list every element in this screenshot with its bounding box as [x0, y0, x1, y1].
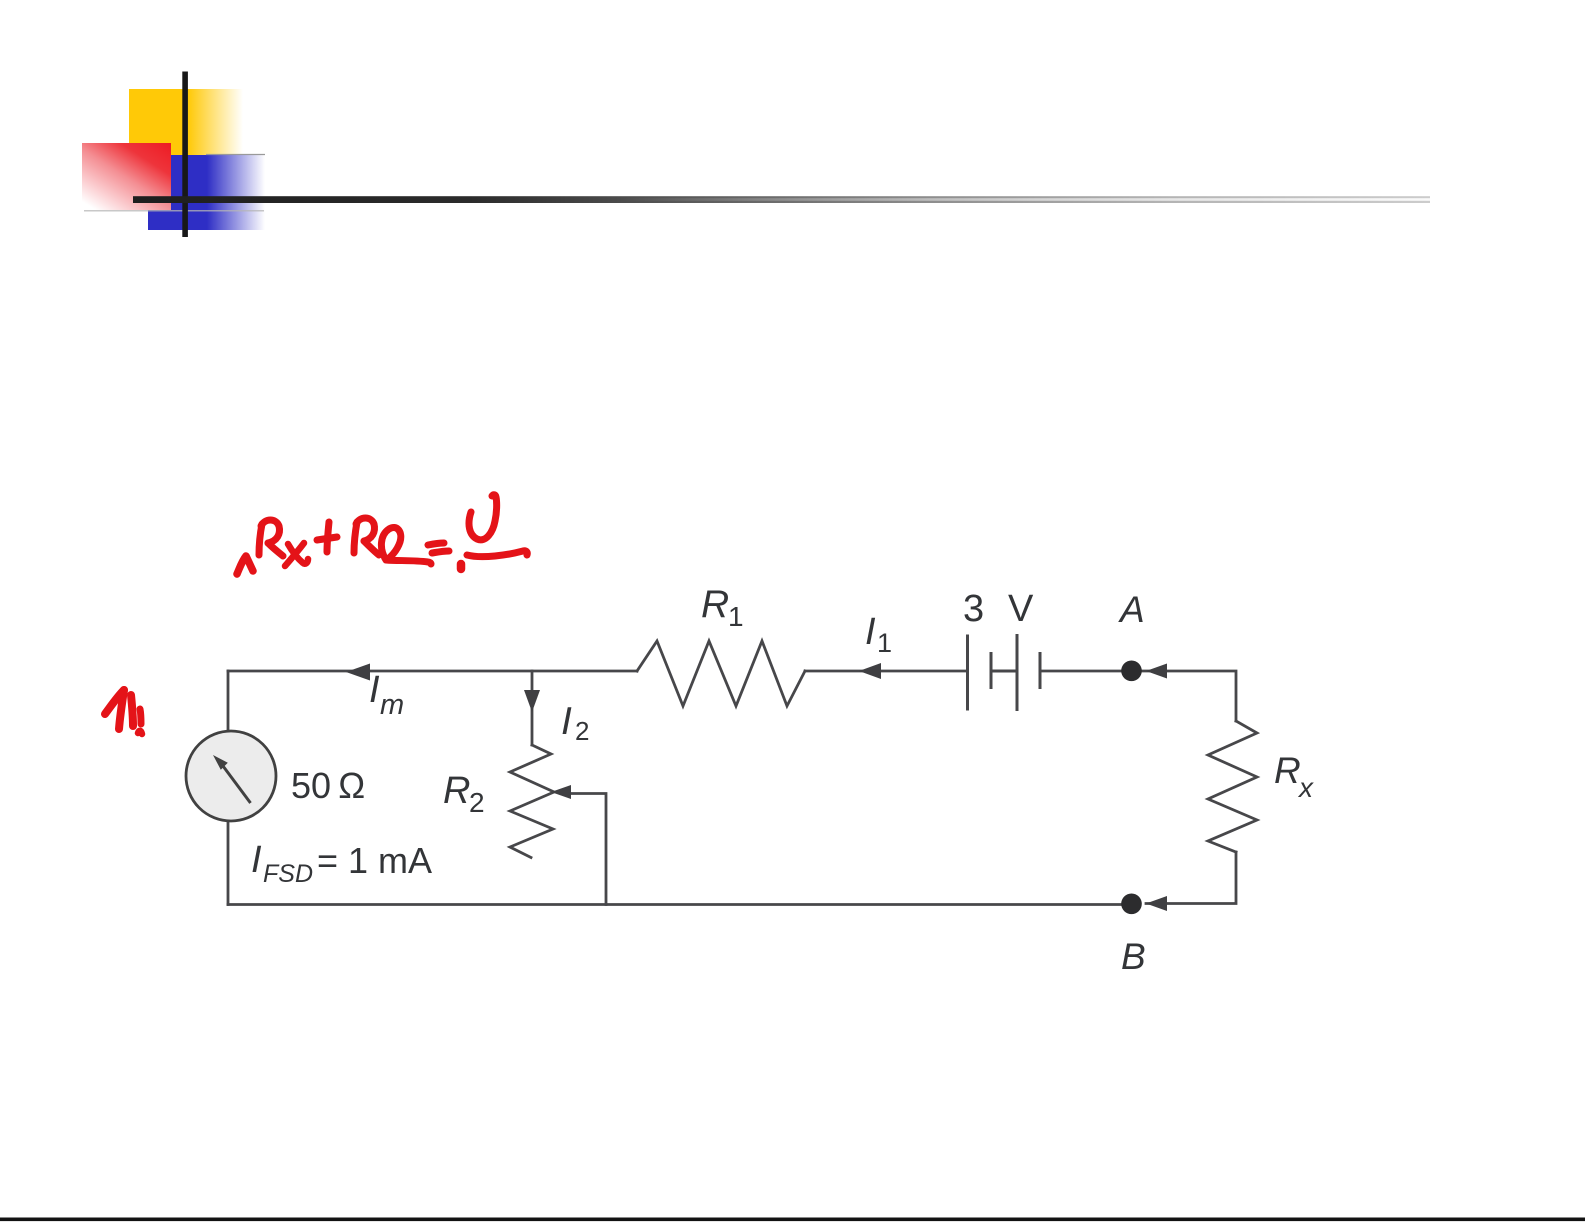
wire: bottom rail — [228, 903, 1131, 906]
wire: junction to R2 — [531, 671, 534, 745]
svg-text:FSD: FSD — [263, 860, 313, 888]
svg-text:2: 2 — [575, 716, 589, 746]
handwritten 2 with long tail — [381, 527, 431, 564]
svg-text:I: I — [251, 839, 262, 881]
svg-text:= 1 mA: = 1 mA — [317, 840, 432, 881]
battery BT1 3 V (two cells) — [968, 636, 1041, 710]
handwritten + — [327, 522, 329, 552]
wire: Rx bottom to node B — [1146, 852, 1236, 904]
svg-text:R: R — [443, 770, 470, 812]
label R2 — [443, 770, 485, 818]
svg-text:3: 3 — [963, 588, 984, 630]
arrow at R2 wiper (pointing left into zigzag) — [551, 785, 571, 799]
arrow at node A (pointing left) — [1146, 664, 1167, 679]
node B (terminal dot) — [1121, 894, 1142, 915]
svg-text:R: R — [701, 583, 729, 626]
svg-text:x: x — [1297, 772, 1314, 803]
handwritten x subscript — [288, 544, 308, 564]
node A (terminal dot) — [1121, 661, 1142, 682]
svg-text:I: I — [865, 611, 876, 653]
handwritten R (Rx) — [259, 524, 262, 555]
label IFSD = 1 mA (meter full-scale current) — [251, 839, 432, 888]
slide bottom border bar — [0, 1218, 1585, 1222]
label Rx — [1274, 750, 1314, 803]
wire: left rail down to meter — [227, 671, 230, 732]
svg-text:50 Ω: 50 Ω — [291, 765, 365, 806]
slide corner decoration (yellow square) — [129, 89, 243, 155]
wire: meter bottom to bottom rail — [227, 821, 230, 905]
svg-text:1: 1 — [728, 601, 744, 632]
svg-text:A: A — [1118, 589, 1145, 630]
red handwritten annotation: Rx + R2 = U (fraction) — [237, 495, 527, 574]
svg-text:2: 2 — [469, 787, 485, 818]
meter M1 (moving-coil movement) — [186, 731, 276, 821]
wire: R1 to battery — [805, 670, 967, 673]
wire: R2 wiper to bottom rail — [566, 794, 606, 905]
fraction bar under U — [467, 551, 527, 557]
slide decoration horizontal gradient bar — [133, 196, 1430, 203]
slide decoration vertical black bar — [182, 72, 188, 238]
handwritten U — [469, 495, 497, 540]
svg-text:V: V — [1008, 588, 1034, 630]
wire: node A to Rx top corner — [1141, 671, 1236, 721]
arrow at node B (pointing left) — [1146, 896, 1167, 911]
dot under fraction bar — [457, 564, 466, 569]
svg-text:1: 1 — [877, 628, 892, 658]
wire: top rail from meter corner to R1 — [228, 670, 637, 673]
arrow Im (current into meter, pointing left) — [346, 664, 370, 681]
svg-text:B: B — [1121, 936, 1146, 977]
arrow I2 (pointing down into R2) — [524, 690, 540, 712]
svg-text:m: m — [380, 689, 404, 721]
slide corner decoration (red square) — [82, 143, 264, 211]
label Im — [369, 669, 404, 721]
caret under Rx — [237, 556, 253, 574]
label I1 — [865, 611, 892, 658]
label R1 — [701, 583, 744, 632]
resistor R1 (zigzag) — [637, 641, 805, 706]
svg-text:I: I — [369, 669, 380, 711]
label 3 V (battery value) — [963, 588, 1034, 630]
svg-text:I: I — [561, 700, 572, 743]
arrow I1 (pointing left on wire) — [859, 663, 881, 679]
slide corner decoration (blue square) — [148, 155, 265, 231]
handwritten R (R2) — [354, 522, 357, 553]
label I2 — [561, 700, 589, 746]
handwritten = — [428, 543, 444, 545]
wire: battery to node A — [1040, 670, 1131, 673]
svg-text:R: R — [1274, 750, 1301, 791]
resistor Rx (zigzag) — [1208, 721, 1257, 852]
resistor R2 potentiometer (zigzag) — [510, 745, 554, 858]
red handwritten annotation: 1 I2 at left margin — [105, 690, 142, 734]
